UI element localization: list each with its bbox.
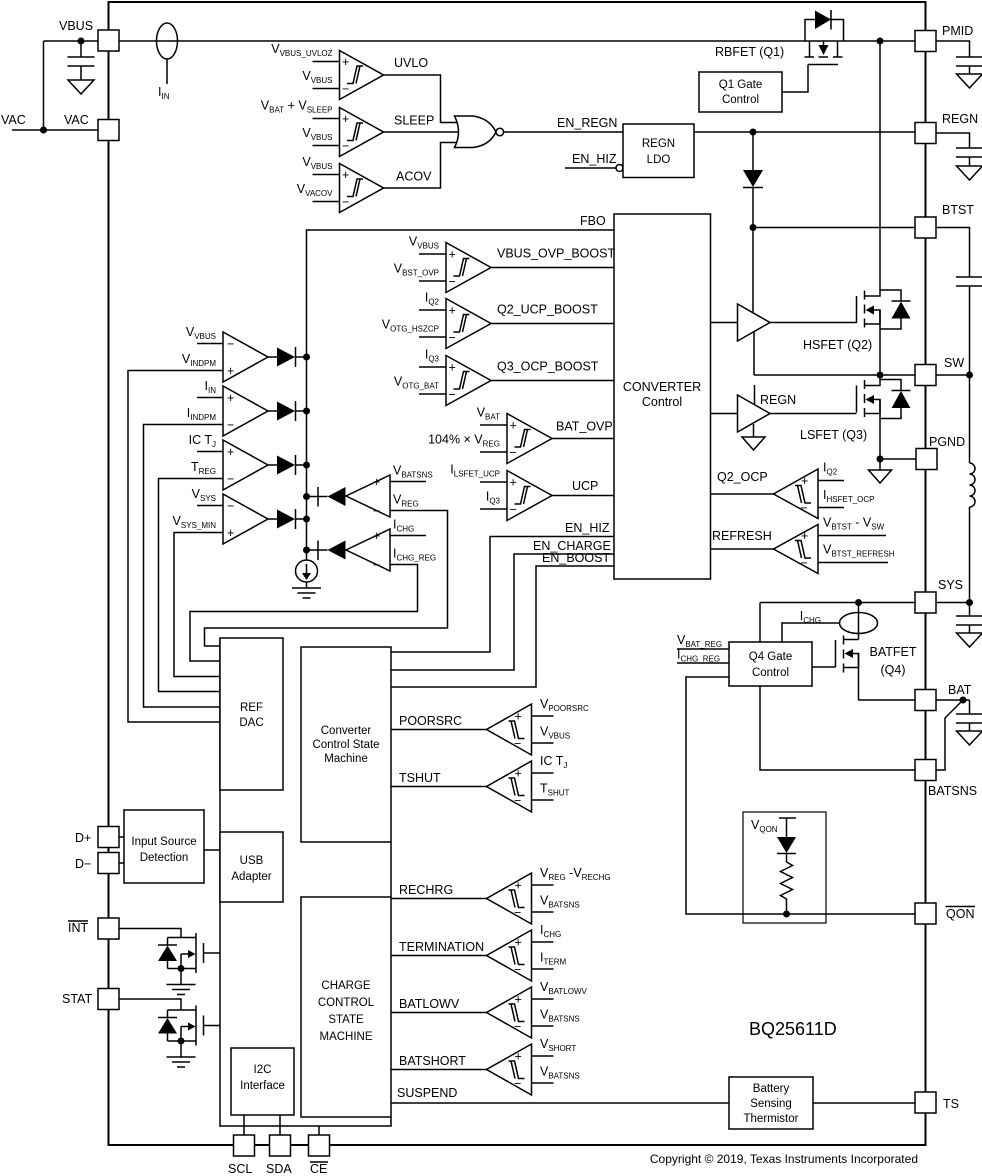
svg-text:+: + [227,526,234,540]
node bus A5 [303,493,310,500]
pin BTST [915,203,974,238]
pin INT [68,918,119,939]
wire D- to detection [119,862,124,864]
wire EN_HIZ to state machine [391,521,614,652]
svg-text:Input Source: Input Source [131,836,196,848]
comparator Q2_UCP_BOOST [382,291,491,349]
svg-text:−: − [514,1020,521,1034]
comparator UCP [450,463,552,521]
svg-text:Control State: Control State [312,739,379,751]
svg-text:SUSPEND: SUSPEND [397,1086,457,1100]
svg-text:+: + [515,767,522,781]
svg-text:Q4 Gate: Q4 Gate [749,651,792,663]
svg-text:D−: D− [75,857,91,871]
svg-text:SYS: SYS [938,578,963,592]
node SYS external junction [966,599,973,606]
svg-text:CONTROL: CONTROL [318,997,375,1009]
pin PGND [916,435,965,470]
svg-text:−: − [514,963,521,977]
svg-text:IC TJ: IC TJ [189,433,216,449]
capacitor at REGN [936,133,982,166]
node VBUS-cap junction [78,38,85,45]
pin CE [309,1135,330,1176]
wire D+ to detection [119,836,124,838]
svg-text:+: + [373,475,380,489]
diode in VQON block [777,837,796,862]
transistor BATFET Q4 [812,636,917,701]
node STAT FET source [178,1038,185,1045]
svg-text:TSHUT: TSHUT [399,771,441,785]
svg-text:CE: CE [310,1162,327,1176]
svg-text:STAT: STAT [62,992,92,1006]
block REF DAC [220,638,283,790]
wire ACOV output to NOR [384,143,459,189]
transistor INT open-drain FET [168,933,221,973]
node INT FET source [178,965,185,972]
svg-text:+: + [227,391,234,405]
svg-text:REGN: REGN [942,112,978,126]
svg-text:−: − [801,501,808,515]
wire RECHRG output [391,883,487,899]
wire Q2_OCP output [711,470,774,494]
diode A1 to bus [277,347,307,367]
svg-text:+: + [801,474,808,488]
block Input Source Detection [124,810,204,883]
svg-text:+: + [449,248,456,262]
zener diode at INT FET [158,938,177,969]
wire REFRESH output [711,529,774,549]
node bus A6 [303,547,310,554]
svg-text:Control: Control [752,667,789,679]
node SYS-BATFET junction [855,599,862,606]
svg-text:−: − [510,446,517,460]
svg-text:Machine: Machine [324,753,367,765]
zener diode at STAT FET [158,1010,177,1041]
svg-text:Q3_OCP_BOOST: Q3_OCP_BOOST [497,360,599,374]
wire I2C to SDA pin [279,1115,281,1135]
svg-text:BATSHORT: BATSHORT [399,1054,466,1068]
ground below INT FET [167,969,196,995]
wire VBUS_OVP_BOOST [491,247,615,268]
svg-text:−: − [449,388,456,402]
comparator Q2_OCP [774,461,875,519]
svg-text:VBUS: VBUS [59,19,93,33]
svg-text:IC TJ: IC TJ [540,754,567,770]
svg-text:HSFET (Q2): HSFET (Q2) [803,338,872,352]
wire UCP [552,479,614,496]
block Converter Control State Machine [301,647,391,842]
svg-text:Sensing: Sensing [750,1098,792,1110]
ground below LSFET driver [742,437,765,450]
svg-text:EN_HIZ: EN_HIZ [565,521,610,535]
wire ICHG_REG input from REF DAC [190,565,418,662]
wire STAT to open-drain FET [119,999,181,1010]
svg-text:−: − [227,472,234,486]
wire VSYS_MIN input to REF DAC [174,533,223,677]
svg-text:REFRESH: REFRESH [712,529,772,543]
svg-text:+: + [510,476,517,490]
svg-text:BAT: BAT [948,683,972,697]
block REGN LDO [623,124,694,178]
node LSFET source junction [877,456,884,463]
comparator VBUS_OVP_BOOST [394,235,491,293]
svg-text:EN_HIZ: EN_HIZ [572,152,617,166]
NOR gate [455,116,504,148]
pin D- [75,853,119,874]
pin TS [915,1092,959,1113]
wire TERMINATION output [391,940,487,956]
block CONVERTER Control [614,214,711,579]
wire HSFET gate [770,322,857,324]
wire VINDPM input to REF DAC [128,371,223,723]
node BTST junction [750,224,757,231]
comparator TSHUT [487,754,570,812]
svg-text:FBO: FBO [580,214,606,228]
svg-text:+: + [515,993,522,1007]
node PMID rail junction [877,38,884,45]
svg-text:Q2_UCP_BOOST: Q2_UCP_BOOST [497,303,598,317]
pin VBUS [59,19,119,51]
pin D+ [75,827,119,848]
svg-text:(Q4): (Q4) [881,663,906,677]
svg-text:+: + [342,55,349,69]
svg-text:+: + [449,304,456,318]
wire Q4 control to QON rail [686,677,915,914]
svg-text:EN_REGN: EN_REGN [557,116,617,130]
pin SW [915,356,964,386]
svg-text:VAC: VAC [64,113,89,127]
comparator Q3_OCP_BOOST [394,348,491,406]
capacitor at SYS [936,603,982,634]
ground below REGN capacitor [957,166,982,180]
svg-text:+: + [515,710,522,724]
comparator BATLOWV [487,980,588,1038]
bootstrap diode REGN to BTST [743,132,763,228]
wire SYS rail [760,602,915,604]
node VAC junction [40,127,47,134]
wire LSFET to PGND [880,458,917,460]
wire detection to USB adapter [204,849,220,851]
pin VAC [64,113,119,141]
svg-text:EN_BOOST: EN_BOOST [542,551,610,565]
svg-text:−: − [227,418,234,432]
svg-text:ACOV: ACOV [396,170,432,184]
transistor STAT open-drain FET [168,1006,221,1046]
diode A2 to bus [277,401,307,421]
block CHARGE CONTROL STATE MACHINE [301,897,391,1117]
svg-text:I2C: I2C [254,1064,272,1076]
wire RBFET to PMID [844,40,916,42]
amplifier A4 VSYS_MIN loop [173,487,277,544]
svg-text:SW: SW [944,356,964,370]
block digital core container [220,638,391,1126]
block Q1 Gate Control [699,72,782,112]
svg-text:PGND: PGND [929,435,965,449]
wire REGN rail [694,131,915,133]
node REGN junction [750,129,757,136]
buffer LSFET gate driver [711,385,797,437]
diode A4 to bus [277,509,307,529]
amplifier A6 ICHG loop [346,518,436,573]
svg-text:BTST: BTST [942,203,974,217]
svg-text:−: − [373,558,380,572]
svg-text:Interface: Interface [240,1080,285,1092]
node SW external junction [966,372,973,379]
svg-text:PMID: PMID [942,24,973,38]
capacitor at PMID [936,41,982,74]
transistor HSFET Q2 [803,290,880,375]
capacitor at BAT [936,700,982,731]
body diode of LSFET [880,380,911,419]
svg-text:BATFET: BATFET [870,645,917,659]
capacitor at VBUS input [68,41,95,80]
svg-text:−: − [342,82,349,96]
ground below BAT capacitor [957,731,982,745]
comparator RECHRG [487,866,611,924]
svg-text:Adapter: Adapter [231,871,271,883]
svg-text:+: + [227,364,234,378]
wire UVLO output to NOR [384,75,459,123]
wire EN_BOOST to state machine [391,551,614,687]
node bus A3 [303,462,310,469]
wire PMID junction down to HSFET drain [879,41,881,290]
svg-text:REF: REF [240,702,263,714]
amplifier A2 IINDPM loop [187,379,277,436]
svg-text:UCP: UCP [572,479,598,493]
svg-text:−: − [373,504,380,518]
node SW-HSFET junction [877,372,884,379]
current source at bus bottom [296,560,318,588]
svg-text:+: + [342,112,349,126]
wire BAT rail [859,699,916,701]
svg-text:−: − [342,139,349,153]
amplifier A3 TREG loop [189,433,277,490]
svg-text:USB: USB [240,855,264,867]
node BAT external junction [960,697,967,704]
svg-text:+: + [801,529,808,543]
comparator SLEEP [261,99,435,157]
body diode of RBFET [815,10,831,30]
svg-text:SLEEP: SLEEP [394,114,434,128]
wire SLEEP output to NOR [384,131,459,133]
wire CE pin to container [318,1126,320,1135]
wire SUSPEND to TS [391,1086,915,1103]
ground below VBUS capacitor [68,80,94,94]
svg-text:−: − [514,737,521,751]
wire SYS junction into Q4 gate control [759,603,761,643]
svg-text:+: + [373,529,380,543]
comparator BAT_OVP [428,406,552,464]
wire TSHUT output [391,771,487,787]
svg-text:−: − [514,1077,521,1091]
wire Q1 gate drive [782,65,808,93]
current sense IIN [157,23,178,101]
svg-text:RECHRG: RECHRG [399,883,453,897]
svg-text:BAT_OVP: BAT_OVP [556,420,613,434]
diode A3 to bus [277,455,307,475]
resistor in VQON block [781,862,793,914]
svg-text:+: + [342,168,349,182]
wire EN_HIZ into REGN LDO [565,152,623,172]
svg-text:UVLO: UVLO [394,56,428,70]
current sense ICHG [782,603,878,643]
wire Q2_UCP_BOOST [491,303,614,324]
wire INT to open-drain FET [119,929,181,938]
pin BATSNS [915,760,977,799]
wire Q3_OCP_BOOST [491,360,614,381]
diode A5 to bus [307,487,346,507]
comparator ACOV [297,155,432,213]
comparator BATSHORT [487,1037,580,1095]
svg-text:D+: D+ [75,831,91,845]
svg-text:SDA: SDA [266,1162,292,1176]
svg-text:Detection: Detection [140,852,189,864]
svg-text:CONVERTER: CONVERTER [623,380,701,394]
node QON junction [783,911,790,918]
node bus A4 [303,516,310,523]
ground below PMID capacitor [957,74,982,88]
svg-text:−: − [801,556,808,570]
svg-text:Control: Control [642,395,682,409]
body diode of HSFET [880,290,911,329]
pin REGN [915,112,978,144]
wire VAC to VBUS drop [12,41,98,130]
pin PMID [915,24,973,52]
wire TREG input to REF DAC [159,479,224,692]
transistor LSFET Q3 [800,375,880,459]
wire BAT_OVP [552,420,614,439]
svg-text:Battery: Battery [753,1083,790,1095]
wire LSFET gate [770,413,857,415]
wire BATSHORT output [391,1054,487,1070]
svg-text:BATSNS: BATSNS [928,784,977,798]
svg-text:LSFET (Q3): LSFET (Q3) [800,428,867,442]
diode A6 to bus [307,541,346,561]
svg-text:Control: Control [722,94,759,106]
amplifier A1 VINDPM loop [182,325,277,382]
wire error bus to CONVERTER Control [307,230,615,560]
svg-text:INT: INT [68,921,89,935]
wire VREG input from REF DAC [205,511,448,647]
pin SDA [266,1135,292,1176]
net label VBAT_REG [677,633,729,649]
wire BAT sense to BATSNS [936,700,963,770]
wire POORSRC output [391,714,487,730]
comparator POORSRC [487,697,590,755]
svg-text:MACHINE: MACHINE [319,1031,372,1043]
svg-text:+: + [227,445,234,459]
svg-text:SCL: SCL [228,1162,252,1176]
pin BAT [915,683,972,711]
svg-text:VBUS_OVP_BOOST: VBUS_OVP_BOOST [497,247,615,261]
ground below STAT FET [167,1041,196,1067]
svg-text:−: − [449,275,456,289]
wire BATLOWV output [391,997,487,1013]
amplifier A5 VREG loop [346,464,433,519]
svg-text:Q2_OCP: Q2_OCP [717,470,768,484]
svg-text:DAC: DAC [239,717,263,729]
wire IINDPM input to REF DAC [144,425,224,708]
svg-text:+: + [515,936,522,950]
pin SYS [915,578,963,613]
svg-text:REGN: REGN [760,393,796,407]
svg-text:−: − [342,195,349,209]
svg-text:Thermistor: Thermistor [744,1113,799,1125]
svg-text:+: + [515,1050,522,1064]
svg-text:−: − [510,503,517,517]
node bus A1 [303,354,310,361]
block Q4 Gate Control [729,642,812,686]
svg-text:QON: QON [946,907,974,921]
bootstrap capacitor BTST to SW [936,228,982,376]
svg-text:STATE: STATE [328,1014,364,1026]
ground below current source [292,588,321,598]
wire VBUS rail to RBFET [119,40,844,42]
svg-text:TS: TS [943,1097,959,1111]
wire BTST rail [753,227,915,229]
svg-text:LDO: LDO [647,154,671,166]
wire SW to bootstrap cap [936,374,970,376]
block Battery Sensing Thermistor [729,1077,813,1129]
svg-text:−: − [227,337,234,351]
ground below SYS capacitor [957,633,982,647]
svg-text:−: − [514,794,521,808]
svg-text:CHARGE: CHARGE [321,980,371,992]
svg-text:−: − [514,906,521,920]
svg-text:TERMINATION: TERMINATION [399,940,484,954]
svg-text:RBFET (Q1): RBFET (Q1) [715,45,784,59]
svg-text:−: − [227,499,234,513]
wire VBUS pin to left drop [44,40,99,42]
wire EN_CHARGE to state machine [391,539,614,670]
buffer HSFET gate driver [711,228,771,376]
ground below LSFET [869,459,892,483]
comparator REFRESH [774,516,895,574]
svg-text:+: + [449,361,456,375]
block USB Adapter [220,832,283,902]
wire I2C to SCL pin [243,1115,245,1135]
net label ICHG_REG [677,648,729,664]
wire Q4 control to BATSNS [760,686,915,770]
svg-text:BATLOWV: BATLOWV [399,997,460,1011]
block VQON pull-up [743,812,826,923]
svg-text:+: + [510,419,517,433]
svg-text:Q1 Gate: Q1 Gate [719,79,762,91]
svg-text:−: − [449,331,456,345]
wire SW rail [754,374,915,376]
comparator TERMINATION [487,923,567,981]
svg-text:Converter: Converter [321,725,372,737]
wire EN_REGN [504,116,623,132]
svg-text:VAC: VAC [1,113,26,127]
pin SCL [228,1135,255,1176]
node bus A2 [303,408,310,415]
svg-text:POORSRC: POORSRC [399,714,462,728]
block I2C Interface [231,1048,294,1115]
comparator UVLO [271,42,428,100]
transistor RBFET Q1 [715,20,844,65]
svg-text:+: + [515,879,522,893]
svg-text:Copyright © 2019, Texas Instru: Copyright © 2019, Texas Instruments Inco… [650,1152,918,1166]
svg-text:BQ25611D: BQ25611D [749,1019,837,1039]
svg-text:REGN: REGN [642,138,675,150]
inductor SW to SYS [970,375,976,603]
pin STAT [62,989,119,1010]
pin QON [915,903,975,924]
